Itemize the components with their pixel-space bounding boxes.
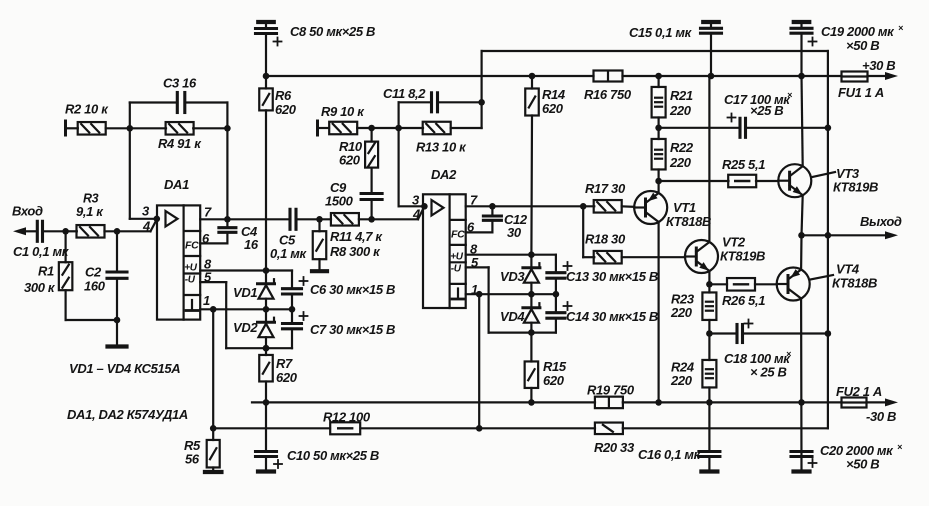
capacitor C13 [547, 255, 572, 295]
label DA1 pin8 [204, 257, 212, 272]
label C16 0,1 мк [638, 447, 702, 462]
wire VT4 emitter down to C20 [800, 299, 803, 471]
label VD3 [500, 269, 525, 284]
label R6 620 [275, 88, 297, 117]
wire R17-R18 vertical [582, 206, 584, 257]
resistor R26 [727, 278, 755, 291]
capacitor C6 [283, 271, 308, 310]
svg-text:C11 8,2: C11 8,2 [383, 86, 426, 101]
node R4/C3 right junction [224, 125, 231, 132]
pointer line VT4 [811, 275, 834, 280]
svg-text:R14: R14 [542, 87, 566, 102]
node C2 top junction [114, 228, 121, 235]
svg-text:620: 620 [276, 370, 298, 385]
arrow -30V [885, 398, 898, 406]
label R1 300 к [24, 264, 56, 296]
wire input to R3 [66, 230, 77, 232]
wire DA2 pin5 [466, 267, 556, 332]
node R12/DA2 pin1 junction [476, 425, 483, 432]
svg-text:620: 620 [542, 101, 564, 116]
wire R2 to node [106, 127, 166, 129]
svg-text:DA1, DA2 К574УД1А: DA1, DA2 К574УД1А [67, 407, 188, 422]
input terminal Вход arrow [13, 227, 37, 235]
label Выход [860, 214, 902, 229]
node C6-C7 mid junction [289, 306, 296, 313]
wire DA2 pin8 [466, 254, 556, 256]
label VT1 КТ818В [666, 200, 711, 229]
svg-text:3: 3 [142, 204, 150, 219]
svg-text:R25 5,1: R25 5,1 [722, 157, 765, 172]
transistor VT4 [777, 268, 810, 301]
wire R4 node down to output line [226, 128, 228, 219]
resistor R15 [525, 333, 539, 403]
svg-text:R18 30: R18 30 [585, 232, 626, 247]
svg-text:C10 50 мк×25 В: C10 50 мк×25 В [287, 448, 379, 463]
ground under R5 [205, 470, 222, 474]
capacitor C10 with ground [256, 402, 283, 471]
svg-text:DA2: DA2 [431, 167, 457, 182]
node VD2 bottom junction [263, 345, 270, 352]
label VT4 КТ818В [832, 262, 877, 291]
label C13 30 мк×15 В [566, 269, 658, 284]
svg-text:R19 750: R19 750 [587, 383, 635, 398]
svg-text:30: 30 [507, 225, 522, 240]
wire DA1 pin1 down [212, 309, 214, 428]
resistor R1 [59, 262, 73, 290]
resistor R9 [329, 122, 357, 135]
resistor R11 [331, 213, 359, 226]
capacitor C12 [483, 206, 501, 232]
svg-text:VD2: VD2 [233, 320, 258, 335]
resistor R7 [259, 348, 273, 402]
label R12 100 [323, 410, 371, 425]
label R24 220 [670, 360, 695, 389]
label R22 220 [669, 140, 694, 170]
label R17 30 [585, 181, 626, 196]
node VT1 collector on -30 rail [655, 399, 662, 406]
resistor R2 terminal bar [66, 121, 78, 135]
svg-text:220: 220 [670, 305, 693, 320]
label R25 5,1 [722, 157, 765, 172]
svg-text:×50 В: ×50 В [846, 457, 879, 472]
svg-text:4: 4 [412, 207, 421, 222]
svg-text:+U: +U [450, 252, 463, 263]
zener diode VD4 [523, 294, 540, 332]
label R4 91 к [158, 136, 202, 151]
node R21 top junction [655, 73, 662, 80]
svg-text:VT4: VT4 [836, 262, 860, 277]
svg-text:FU2 1 А: FU2 1 А [836, 384, 882, 399]
fuse FU1 [842, 72, 868, 82]
ground under R8 [312, 259, 327, 271]
wire C18 line [709, 332, 828, 334]
svg-text:КТ818В: КТ818В [832, 276, 877, 291]
wire VT3 emitter down [802, 195, 803, 235]
wire R12 line [213, 427, 828, 429]
label C12 30 [504, 212, 528, 240]
svg-text:FU1 1 А: FU1 1 А [838, 85, 884, 100]
node C11 right junction [478, 99, 485, 106]
node R17/R18 branch junction [580, 203, 587, 210]
svg-text:220: 220 [669, 103, 692, 118]
resistor R17 [594, 200, 622, 213]
wire VT3 collector up [802, 76, 803, 166]
wire DA2 pin6 [466, 231, 493, 233]
resistor R21 [652, 76, 666, 128]
label C20 2000 мк× [820, 442, 903, 458]
wire C5 to R11 [296, 218, 331, 220]
node output feedback junction [825, 232, 832, 239]
svg-text:R9 10 к: R9 10 к [321, 104, 365, 119]
svg-text:R11 4,7 к: R11 4,7 к [330, 229, 383, 244]
label R16 750 [584, 87, 632, 102]
label DA1 [164, 177, 189, 192]
node R8 junction [316, 216, 323, 223]
wire R17 to VT1 [622, 205, 635, 208]
wire -30V rail [252, 401, 885, 403]
svg-text:КТ819В: КТ819В [720, 249, 765, 264]
ground under C2 [108, 320, 127, 347]
svg-text:VT1: VT1 [673, 200, 696, 215]
label VT3 КТ819В [833, 166, 878, 195]
resistor R2 [78, 122, 106, 135]
capacitor C15 with ground [701, 22, 722, 76]
node VT2 emitter/R23/R26 junction [706, 281, 713, 288]
transistor VT1 [634, 191, 667, 224]
svg-text:R4 91 к: R4 91 к [158, 136, 202, 151]
label R15 620 [543, 359, 567, 388]
resistor R9 terminal bar [318, 121, 330, 135]
node R23/C18 junction [706, 330, 713, 337]
svg-text:×25 В: ×25 В [750, 103, 783, 118]
svg-text:-30 В: -30 В [866, 409, 896, 424]
label C9 1500 [325, 180, 354, 209]
capacitor C19 with ground [791, 22, 817, 76]
node R2/R4 left junction [127, 125, 134, 132]
label VD1 [233, 285, 257, 300]
label R13 10 к [416, 140, 467, 155]
label VD2 [233, 320, 258, 335]
note VD1-VD4 type [69, 361, 180, 376]
node pin7/C4 junction [224, 216, 231, 223]
label DA1 pin1 [203, 293, 210, 308]
wire R26 to VT4 base [755, 283, 777, 285]
label DA2 pin3 [412, 193, 420, 208]
label VD4 [500, 309, 525, 324]
svg-text:7: 7 [204, 205, 212, 220]
wire DA1 pin8 [200, 269, 292, 271]
node C19 junction on rail [798, 73, 805, 80]
node R24/C16 junction [706, 399, 713, 406]
capacitor C1 [37, 221, 66, 241]
wire DA2 pin1 mid line [466, 293, 556, 295]
wire R9 to R13 [357, 127, 423, 129]
capacitor C17 [728, 114, 746, 138]
resistor R24 [702, 334, 716, 403]
op-amp DA2 [423, 194, 466, 308]
label DA1 pin3 [142, 204, 150, 219]
svg-text:VT2: VT2 [722, 235, 746, 250]
resistor R8 [313, 219, 327, 259]
label C20 ×50 В [846, 457, 879, 472]
node VD1-VD2 mid junction [263, 306, 270, 313]
wire feedback to DA1 pin3 [130, 128, 157, 219]
node VT3 emitter/VT4 collector junction [798, 232, 805, 239]
wire R1 bottom [66, 290, 117, 320]
label R9 10 к [321, 104, 365, 119]
wire VT4 collector up [800, 235, 803, 269]
wire VT1 emitter up [657, 181, 659, 193]
svg-text:1500: 1500 [325, 194, 354, 209]
label C15 0,1 мк [629, 25, 693, 40]
wire C17 line left [659, 127, 740, 129]
label -30 В [866, 409, 896, 424]
fuse FU2 [842, 398, 867, 408]
svg-text:FC: FC [185, 240, 199, 252]
node pin8/R14 junction [528, 251, 535, 258]
label C8 50 мк×25 В [290, 24, 375, 39]
capacitor C16 with ground [699, 402, 720, 471]
svg-text:R17 30: R17 30 [585, 181, 626, 196]
transistor VT2 [685, 240, 718, 273]
wire output line [802, 234, 886, 236]
svg-text:R8 300 к: R8 300 к [330, 244, 381, 259]
label R18 30 [585, 232, 626, 247]
svg-text:9,1 к: 9,1 к [76, 204, 104, 219]
label DA1 pin5 [204, 270, 212, 285]
resistor R25 [728, 175, 756, 188]
node C9 junction [368, 216, 375, 223]
capacitor C8 with ground [256, 22, 282, 76]
node A junction input/R1 [62, 228, 69, 235]
svg-text:620: 620 [339, 153, 361, 168]
label C18 100 мк× [724, 349, 792, 366]
wire R25 line left [659, 180, 729, 182]
node C17 right junction [825, 125, 832, 132]
svg-text:C15 0,1 мк: C15 0,1 мк [629, 25, 693, 40]
label FU1 1 А [838, 85, 884, 100]
wire DA2 pin1 down to R12 line [478, 294, 480, 428]
resistor R3 [77, 225, 105, 238]
svg-text:C13 30 мк×15 В: C13 30 мк×15 В [566, 269, 658, 284]
label C7 30 мк×15 В [310, 322, 395, 337]
svg-text:+U: +U [184, 263, 197, 274]
svg-text:VD4: VD4 [500, 309, 525, 324]
node R5/line2 junction [210, 425, 217, 432]
node R1/C2 bottom junction [114, 317, 121, 324]
wire input down to R1 [64, 231, 66, 262]
wire R26 line left [709, 283, 727, 285]
svg-text:R16 750: R16 750 [584, 87, 632, 102]
label C10 50 мк×25 В [287, 448, 379, 463]
label DA1 pin7 [204, 205, 212, 220]
wire C17 line right [746, 127, 828, 129]
node C18 right junction [825, 330, 832, 337]
svg-text:R1: R1 [38, 264, 54, 279]
wire R4 right [193, 127, 227, 129]
svg-text:C19 2000 мк: C19 2000 мк [821, 24, 895, 39]
svg-text:16: 16 [244, 237, 259, 252]
op-amp DA1 [157, 205, 200, 319]
svg-text:КТ818В: КТ818В [666, 214, 711, 229]
label R10 620 [339, 139, 363, 168]
resistor R10 [365, 128, 378, 194]
label C6 30 мк×15 В [310, 282, 395, 297]
label DA1 pin6 [202, 231, 210, 246]
label C5 0,1 мк [270, 233, 308, 262]
svg-text:56: 56 [185, 452, 200, 467]
resistor R5 [207, 428, 220, 470]
svg-text:C14 30 мк×15 В: C14 30 мк×15 В [566, 309, 658, 324]
wire DA1 pin5 [200, 282, 292, 348]
node VT4 emitter on -30 rail [798, 399, 805, 406]
node pin1/R5 junction [210, 306, 217, 313]
label C2 160 [84, 265, 106, 294]
wire VT2 collector up to +30 rail [708, 76, 710, 242]
svg-text:R13 10 к: R13 10 к [416, 140, 467, 155]
label R14 620 [542, 87, 566, 116]
svg-text:160: 160 [84, 279, 106, 294]
capacitor C14 [547, 294, 572, 332]
svg-text:VD3: VD3 [500, 269, 525, 284]
label R21 220 [669, 88, 693, 118]
svg-text:Вход: Вход [12, 204, 43, 219]
wire DA2 pin7 [466, 205, 595, 207]
node C13-C14 mid junction [553, 291, 560, 298]
wire DA1 pin7 [200, 218, 290, 220]
resistor R16 [594, 71, 623, 82]
arrow +30V [885, 72, 898, 80]
label C17 ×25 В [750, 103, 783, 118]
label C17 100 мк× [724, 90, 793, 107]
resistor R20 [595, 423, 623, 435]
node VD3-VD4 mid junction [528, 291, 535, 298]
pointer line VT3 [813, 172, 836, 177]
label DA2 pin6 [467, 220, 475, 235]
label C3 16 [163, 76, 197, 91]
node pin1/R12 junction [476, 291, 483, 298]
svg-text:4: 4 [142, 219, 151, 234]
label R2 10 к [65, 102, 109, 117]
label DA2 pin1 [471, 282, 478, 297]
node C11/pin3 junction [395, 125, 402, 132]
svg-text:R21: R21 [670, 88, 693, 103]
label DA1 pin4 [142, 219, 151, 234]
node C8/R6 junction on +30 rail [263, 73, 270, 80]
wire R11 to DA2 pin4 [359, 206, 425, 219]
label DA2 pin5 [471, 255, 479, 270]
resistor R13 [423, 122, 451, 135]
capacitor C20 with ground [791, 452, 817, 472]
node pin8/R6 junction [263, 267, 270, 274]
resistor R18 [583, 251, 622, 264]
node VD4 bottom junction [528, 329, 535, 336]
label +30 В [862, 58, 895, 73]
label Вход [12, 204, 43, 219]
capacitor C18 [737, 320, 753, 343]
svg-text:R26 5,1: R26 5,1 [722, 293, 765, 308]
capacitor C11 loop [399, 93, 482, 128]
svg-text:300 к: 300 к [24, 280, 56, 295]
node R21/R22/C17 junction [655, 125, 662, 132]
label C18 ×25 В [750, 365, 787, 380]
label R26 5,1 [722, 293, 765, 308]
label R23 220 [670, 292, 695, 321]
svg-text:620: 620 [275, 102, 297, 117]
label VT2 КТ819В [720, 235, 765, 264]
node R10 top junction [368, 125, 375, 132]
svg-text:КТ819В: КТ819В [833, 180, 878, 195]
capacitor C4 [219, 219, 236, 243]
label DA2 pin4 [412, 207, 421, 222]
wire R18 to VT2 base [622, 256, 685, 258]
svg-text:C16 0,1 мк: C16 0,1 мк [638, 447, 702, 462]
svg-text:R12 100: R12 100 [323, 410, 371, 425]
wire DA1 pin6 [200, 242, 227, 244]
wire output feedback top [482, 51, 828, 428]
label C19 ×50 В [846, 38, 879, 53]
wire R13 right to feedback node [451, 51, 482, 128]
svg-text:× 25 В: × 25 В [750, 365, 787, 380]
arrow Выход [885, 231, 898, 239]
node C15 junction on rail [708, 73, 715, 80]
wire R25 to VT3 base [756, 180, 778, 182]
label R3 [76, 192, 104, 220]
label R8 300 к [330, 244, 381, 259]
resistor R14 [525, 76, 539, 255]
capacitor C3 loop [130, 93, 228, 129]
label R5 56 [184, 438, 201, 467]
svg-text:620: 620 [543, 373, 565, 388]
capacitor C7 [283, 309, 308, 348]
svg-text:C2: C2 [85, 265, 102, 280]
svg-text:C8 50 мк×25 В: C8 50 мк×25 В [290, 24, 375, 39]
label C1 0,1 мк [13, 244, 70, 259]
svg-text:-U: -U [185, 275, 196, 286]
svg-text:VD1: VD1 [233, 285, 257, 300]
svg-text:C7 30 мк×15 В: C7 30 мк×15 В [310, 322, 395, 337]
resistor R6 [259, 76, 273, 271]
node R7 top junction [263, 345, 270, 352]
label DA2 [431, 167, 457, 182]
resistor R12 [330, 422, 360, 434]
capacitor C9 [361, 194, 382, 220]
svg-text:C1 0,1 мк: C1 0,1 мк [13, 244, 70, 259]
transistor VT3 [778, 164, 811, 197]
svg-text:R22: R22 [670, 140, 694, 155]
wire R3 to DA1 pin4 [105, 219, 157, 231]
svg-text:×50 В: ×50 В [846, 38, 879, 53]
node R14 top junction [529, 73, 536, 80]
svg-text:R6: R6 [275, 88, 292, 103]
svg-text:FC: FC [451, 229, 465, 241]
node DA2 pin3 junction [421, 203, 428, 210]
note DA1 DA2 type [67, 407, 188, 422]
label C11 8,2 [383, 86, 426, 101]
wire +30V rail [266, 75, 885, 77]
resistor R19 [595, 397, 623, 409]
node pin7/C12 junction [489, 203, 496, 210]
resistor R23 [702, 284, 716, 333]
svg-text:R15: R15 [543, 359, 567, 374]
svg-text:-U: -U [451, 264, 462, 275]
node R7/C10 junction [263, 399, 270, 406]
svg-text:C3 16: C3 16 [163, 76, 197, 91]
resistor R4 [166, 122, 194, 135]
svg-text:C6 30 мк×15 В: C6 30 мк×15 В [310, 282, 395, 297]
wire VT1 collector down to -30 rail [657, 222, 659, 403]
label R19 750 [587, 383, 635, 398]
